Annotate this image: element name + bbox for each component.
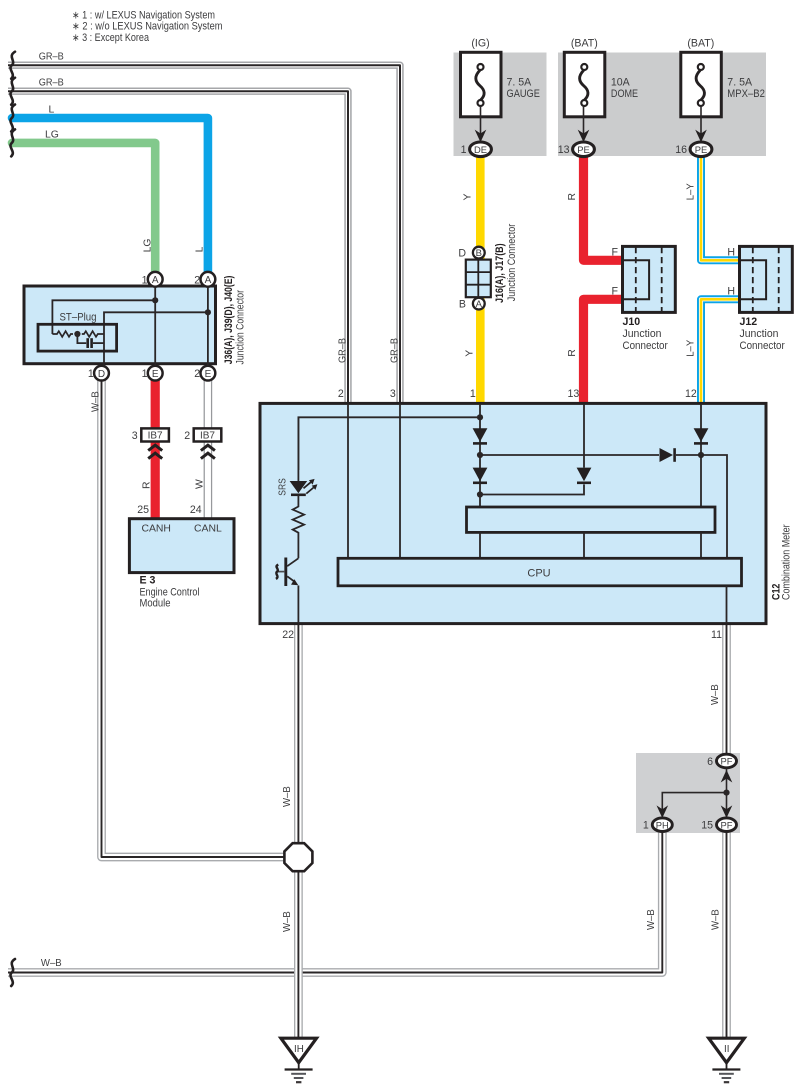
- svg-text:J12: J12: [740, 316, 758, 328]
- label Engine Control Module: [140, 586, 200, 609]
- label J12: [740, 316, 758, 328]
- node below D2: [477, 491, 483, 497]
- label W-B vertical PH wire: [646, 909, 657, 930]
- label GR-B wire 2: [39, 77, 64, 88]
- J36 internal wire A1 vertical: [154, 287, 156, 366]
- connector oval PE pin16: [690, 142, 712, 157]
- svg-text:LG: LG: [143, 239, 154, 253]
- svg-text:DE: DE: [474, 144, 487, 155]
- SRS LED: [290, 417, 318, 495]
- label LG wire: [45, 129, 59, 140]
- svg-text:GR–B: GR–B: [39, 77, 64, 88]
- label pin 6 PF: [707, 756, 713, 768]
- svg-text:Junction: Junction: [623, 328, 662, 340]
- label pin 2 J36 E2: [194, 368, 200, 380]
- label CANL: [194, 524, 222, 535]
- label J10: [623, 316, 641, 328]
- label L-Y vertical upper: [685, 183, 696, 200]
- label C12 vertical: [771, 584, 783, 600]
- wire W-B (meter pin 11 to PF pin 6): [722, 625, 731, 754]
- svg-text:2: 2: [194, 274, 200, 286]
- svg-text:1: 1: [470, 388, 476, 400]
- ground II: [709, 1038, 745, 1082]
- svg-text:3: 3: [390, 388, 396, 400]
- label W-B vertical pin22 wire upper: [282, 786, 293, 807]
- label 10A DOME: [611, 77, 638, 100]
- meter internal pin13 vertical: [583, 404, 585, 468]
- fuse MPX-B2 box: [681, 52, 722, 142]
- node pin1/SRS: [477, 414, 483, 420]
- svg-text:24: 24: [190, 504, 202, 516]
- label pin 3 IB7: [132, 430, 138, 442]
- wire break squiggle L: [10, 105, 15, 132]
- svg-text:2: 2: [338, 388, 344, 400]
- svg-text:PE: PE: [577, 144, 590, 155]
- J36 pin circle E2: [201, 366, 216, 381]
- wire break squiggle GR-B 1: [10, 52, 15, 79]
- svg-text:DOME: DOME: [611, 88, 638, 100]
- diode D5 horizontal: [660, 448, 675, 462]
- svg-text:L: L: [194, 246, 205, 252]
- meter internal SRS branch wire: [298, 417, 480, 470]
- ST-Plug capacitor: [77, 334, 104, 348]
- label J16 pin D: [458, 247, 466, 259]
- svg-text:PH: PH: [656, 819, 669, 830]
- svg-text:7. 5A: 7. 5A: [507, 77, 533, 89]
- label W-B vertical pin22 wire: [282, 911, 293, 932]
- svg-text:Junction: Junction: [740, 328, 779, 340]
- ST-Plug resistor R-right: [82, 331, 104, 337]
- svg-text:F: F: [612, 247, 619, 259]
- diode D1 (pin1 upper): [473, 428, 488, 443]
- svg-text:12: 12: [685, 388, 697, 400]
- label E 3: [140, 575, 156, 587]
- svg-text:1: 1: [461, 144, 467, 156]
- svg-text:15: 15: [701, 820, 713, 832]
- wire GR-B 1 (to meter pin 3): [8, 65, 400, 402]
- label ST-Plug: [60, 312, 97, 324]
- svg-text:L–Y: L–Y: [685, 340, 696, 357]
- svg-text:B: B: [459, 298, 466, 310]
- label W-B vertical (J36 D): [90, 391, 101, 412]
- svg-text:CANL: CANL: [194, 524, 222, 535]
- svg-text:Connector: Connector: [740, 340, 786, 352]
- meter internal pin11 line: [726, 586, 728, 623]
- label R vertical lower: [567, 349, 578, 357]
- svg-text:Connector: Connector: [623, 340, 669, 352]
- label J16(A), J17(B): [494, 243, 506, 303]
- ground IH: [281, 1038, 317, 1082]
- J16 pin circle A (bottom): [473, 298, 485, 311]
- svg-text:3: 3: [132, 430, 138, 442]
- label W-B vertical pin11 wire: [710, 684, 721, 705]
- label Y vertical lower: [464, 350, 475, 357]
- svg-text:13: 13: [558, 144, 570, 156]
- svg-text:H: H: [727, 247, 735, 259]
- svg-text:Engine Control: Engine Control: [140, 586, 200, 598]
- wire W-B (J36 pin D to splice octagon): [102, 380, 287, 857]
- fuse DOME box: [564, 52, 605, 142]
- J36 pin circle D: [94, 366, 109, 381]
- note text asterisk legend: [72, 9, 223, 43]
- wire R red (J10 pin F lower to meter pin 13): [584, 299, 623, 402]
- svg-text:(IG): (IG): [471, 37, 489, 49]
- label L-Y vertical lower: [685, 340, 696, 357]
- ECM box E3: [129, 519, 234, 573]
- connector oval PF pin15: [717, 818, 737, 832]
- J36 internal wire to ST-Plug right / pin D: [104, 312, 208, 365]
- label GR-B wire 1: [39, 52, 64, 63]
- meter internal sub-box: [467, 507, 716, 532]
- label Y vertical upper: [463, 194, 474, 201]
- svg-text:L: L: [49, 104, 55, 115]
- junction connector J16/J17 grid symbol: [466, 260, 491, 298]
- label pin 1 J36 E1: [142, 368, 148, 380]
- diode D3 (pin13): [577, 468, 592, 483]
- J36 pin circle E1: [148, 366, 163, 381]
- label R vertical upper: [567, 193, 578, 201]
- label W-B vertical PF15 wire: [710, 909, 721, 930]
- svg-text:1: 1: [643, 820, 649, 832]
- meter internal pin1 vertical: [479, 404, 481, 507]
- wire W-B (meter pin 22 to splice octagon to ground IH): [294, 625, 303, 1038]
- svg-text:R: R: [567, 349, 578, 357]
- diode D4 (pin12): [694, 428, 709, 443]
- label GR-B vertical (pin3): [389, 338, 400, 363]
- label pin 2 J36 A2: [194, 274, 200, 286]
- label pin 1 J36 A1: [142, 274, 148, 286]
- ST-Plug box: [38, 324, 117, 351]
- wire break squiggle LG: [10, 129, 15, 156]
- label pin 1 PH: [643, 820, 649, 832]
- J36 pin circle A2: [201, 272, 216, 287]
- label pin 1 J36 D: [88, 368, 94, 380]
- svg-text:J36(A), J39(D), J40(E): J36(A), J39(D), J40(E): [223, 276, 235, 365]
- junction connector J12 body: [740, 246, 793, 312]
- svg-text:∗ 3 : Except Korea: ∗ 3 : Except Korea: [72, 32, 149, 44]
- svg-text:D: D: [458, 247, 466, 259]
- fuse GAUGE box: [461, 52, 502, 142]
- connector oval PE pin13: [573, 142, 595, 157]
- svg-text:A: A: [205, 275, 212, 286]
- label 7.5A GAUGE: [507, 77, 540, 100]
- svg-text:6: 6: [707, 756, 713, 768]
- label H upper: [727, 247, 735, 259]
- label J10 Junction Connector: [623, 328, 669, 352]
- svg-text:W–B: W–B: [710, 684, 721, 705]
- wire L-Y (fuse MPX-B2 to J12 pin H upper): [701, 156, 739, 260]
- label GR-B vertical (pin2): [338, 338, 349, 363]
- svg-text:GR–B: GR–B: [338, 338, 349, 363]
- svg-text:13: 13: [568, 388, 580, 400]
- J36 internal wire to ST-Plug left: [52, 300, 155, 334]
- label H lower: [727, 286, 735, 298]
- node on A2 vertical: [205, 309, 211, 315]
- svg-text:PF: PF: [721, 819, 733, 830]
- svg-text:PF: PF: [721, 756, 733, 767]
- label pin 16 PE: [675, 144, 687, 156]
- wire L-Y (J12 pin H lower to meter pin 12): [701, 299, 739, 402]
- label pin 13 PE: [558, 144, 570, 156]
- label LG vertical: [143, 239, 154, 253]
- svg-text:L–Y: L–Y: [685, 183, 696, 200]
- svg-text:W–B: W–B: [282, 911, 293, 932]
- wire R red (J36 pin E1 to ECM CANH): [151, 380, 160, 519]
- label pin 15 PF: [701, 820, 713, 832]
- label pin 1 meter: [470, 388, 476, 400]
- junction connector box J36: [24, 286, 216, 364]
- wire LG green (to J36 pin A1): [12, 143, 155, 272]
- label Combination Meter vertical: [781, 524, 793, 600]
- wire R red (fuse DOME to J10 pin F upper): [584, 156, 623, 260]
- connector oval PH pin1: [652, 818, 672, 832]
- label pin 24 CANL: [190, 504, 202, 516]
- label J12 Junction Connector: [740, 328, 786, 352]
- combination meter box C12: [260, 403, 766, 623]
- svg-text:W–B: W–B: [282, 786, 293, 807]
- svg-text:II: II: [724, 1044, 729, 1055]
- label pin 1 DE: [461, 144, 467, 156]
- wire break squiggle GR-B 2: [10, 78, 15, 105]
- label pin 2 meter: [338, 388, 344, 400]
- splice octagon node: [284, 843, 312, 871]
- label pin 13 meter: [568, 388, 580, 400]
- fuse block background BAT (DOME / MPX-B2): [558, 53, 766, 157]
- J16 pin circle B (top): [473, 247, 485, 260]
- label SRS vertical: [277, 478, 288, 496]
- label pin 25 CANH: [137, 504, 149, 516]
- node on A1 vertical: [152, 297, 158, 303]
- svg-text:IH: IH: [294, 1044, 304, 1055]
- junction connector J10 body: [623, 246, 676, 312]
- svg-text:∗ 2 : w/o LEXUS Navigation Sys: ∗ 2 : w/o LEXUS Navigation System: [72, 21, 223, 33]
- svg-text:SRS: SRS: [277, 478, 288, 496]
- ST-Plug mid node: [74, 331, 80, 337]
- connector oval DE pin1: [470, 142, 492, 157]
- svg-text:W–B: W–B: [710, 909, 721, 930]
- label W-B bus horizontal: [41, 958, 62, 969]
- wire W-B horizontal ground bus at bottom left: [8, 830, 662, 973]
- wire break squiggle W-B bus: [10, 959, 15, 986]
- label CANH: [141, 524, 170, 535]
- svg-text:(BAT): (BAT): [571, 37, 598, 49]
- label F upper: [612, 247, 619, 259]
- svg-text:GR–B: GR–B: [39, 52, 64, 63]
- svg-text:IB7: IB7: [200, 431, 215, 442]
- label L vertical: [194, 246, 205, 252]
- svg-text:1: 1: [142, 274, 148, 286]
- svg-text:7. 5A: 7. 5A: [727, 77, 753, 89]
- J36 pin circle A1: [148, 272, 163, 287]
- svg-text:B: B: [476, 248, 482, 259]
- svg-text:Y: Y: [463, 194, 474, 201]
- node on pin12 vertical: [698, 452, 704, 458]
- label pin 3 meter: [390, 388, 396, 400]
- svg-text:1: 1: [88, 368, 94, 380]
- svg-text:CPU: CPU: [527, 568, 550, 580]
- svg-text:A: A: [476, 299, 483, 310]
- svg-text:W–B: W–B: [646, 909, 657, 930]
- svg-text:W–B: W–B: [41, 958, 62, 969]
- label J16 pin B: [459, 298, 466, 310]
- wire diode row horizontal: [480, 455, 727, 558]
- svg-text:J16(A), J17(B): J16(A), J17(B): [494, 243, 506, 303]
- label pin 2 IB7: [184, 430, 190, 442]
- svg-text:ST–Plug: ST–Plug: [60, 312, 97, 324]
- svg-text:GAUGE: GAUGE: [507, 88, 540, 100]
- svg-text:Junction Connector: Junction Connector: [235, 290, 247, 365]
- svg-text:Module: Module: [140, 598, 171, 610]
- label F lower: [612, 286, 619, 298]
- svg-text:LG: LG: [45, 129, 59, 140]
- svg-text:J10: J10: [623, 316, 641, 328]
- label R vertical (CANH): [142, 481, 153, 489]
- meter internal line pin3 to CPU: [399, 404, 401, 558]
- svg-text:IB7: IB7: [148, 431, 163, 442]
- chevron below IB7 pin3: [148, 445, 162, 458]
- fuse block background IG: [454, 53, 547, 157]
- label Junction Connector J16: [506, 223, 518, 301]
- svg-text:PE: PE: [695, 144, 708, 155]
- wire Y yellow (fuse GAUGE to meter pin 1): [476, 156, 485, 402]
- wire L blue (to J36 pin A2): [12, 118, 208, 272]
- chevron below IB7 pin2: [201, 445, 215, 458]
- wire W white (J36 pin E2 to ECM CANL): [204, 380, 213, 519]
- svg-text:CANH: CANH: [141, 524, 170, 535]
- svg-text:10A: 10A: [611, 77, 631, 89]
- svg-text:H: H: [727, 286, 735, 298]
- label (IG): [471, 37, 489, 49]
- svg-text:11: 11: [711, 629, 722, 641]
- transistor Q (meter internal): [276, 558, 299, 624]
- wire D2 node to D3: [480, 484, 584, 494]
- svg-text:Combination Meter: Combination Meter: [781, 524, 793, 600]
- svg-text:(BAT): (BAT): [687, 37, 714, 49]
- label (BAT) dome: [571, 37, 598, 49]
- svg-text:D: D: [98, 369, 105, 380]
- label W vertical (CANL): [194, 479, 205, 489]
- svg-text:E 3: E 3: [140, 575, 156, 587]
- svg-text:22: 22: [282, 629, 294, 641]
- svg-text:W–B: W–B: [90, 391, 101, 412]
- wire W-B (PF pin 15 to ground II): [722, 830, 731, 1038]
- label pin 11 meter: [711, 629, 722, 641]
- wire GR-B 2 (to meter pin 2): [8, 91, 348, 402]
- label J36(A), J39(D), J40(E): [223, 276, 235, 365]
- svg-text:Junction Connector: Junction Connector: [506, 223, 518, 301]
- ST-Plug resistor R-left: [52, 331, 73, 337]
- svg-text:A: A: [152, 275, 159, 286]
- svg-text:2: 2: [194, 368, 200, 380]
- svg-text:2: 2: [184, 430, 190, 442]
- svg-text:R: R: [142, 481, 153, 489]
- svg-text:E: E: [152, 369, 159, 380]
- CPU box: [338, 558, 742, 586]
- svg-text:R: R: [567, 193, 578, 201]
- SRS resistor: [293, 495, 304, 559]
- meter internal pin12 vertical: [700, 404, 702, 507]
- svg-text:25: 25: [137, 504, 149, 516]
- label L wire: [49, 104, 55, 115]
- label (BAT) mpx: [687, 37, 714, 49]
- svg-text:W: W: [194, 479, 205, 489]
- svg-text:F: F: [612, 286, 619, 298]
- svg-text:∗ 1 : w/ LEXUS Navigation Syst: ∗ 1 : w/ LEXUS Navigation System: [72, 9, 215, 21]
- node below D1: [477, 452, 483, 458]
- label pin 22 meter: [282, 629, 294, 641]
- meter internal line pin2 to CPU: [347, 404, 349, 558]
- J36 internal wire A2 vertical: [207, 287, 209, 366]
- label 7.5A MPX-B2: [727, 77, 765, 100]
- svg-text:E: E: [205, 369, 212, 380]
- relay block background (PF/PH connectors): [636, 753, 740, 833]
- svg-text:16: 16: [675, 144, 687, 156]
- PF/PH connector internals (bottom right): [657, 768, 733, 818]
- label Junction Connector J36: [235, 290, 247, 365]
- svg-text:GR–B: GR–B: [389, 338, 400, 363]
- label pin 12 meter: [685, 388, 697, 400]
- connector IB7 pin3: [141, 428, 169, 441]
- wires sub-box to CPU: [480, 532, 701, 558]
- diode D2 (pin1 lower): [473, 468, 488, 483]
- svg-text:1: 1: [142, 368, 148, 380]
- connector oval PF pin6: [717, 754, 737, 768]
- connector IB7 pin2: [194, 428, 222, 441]
- svg-text:MPX–B2: MPX–B2: [727, 88, 765, 100]
- svg-text:Y: Y: [464, 350, 475, 357]
